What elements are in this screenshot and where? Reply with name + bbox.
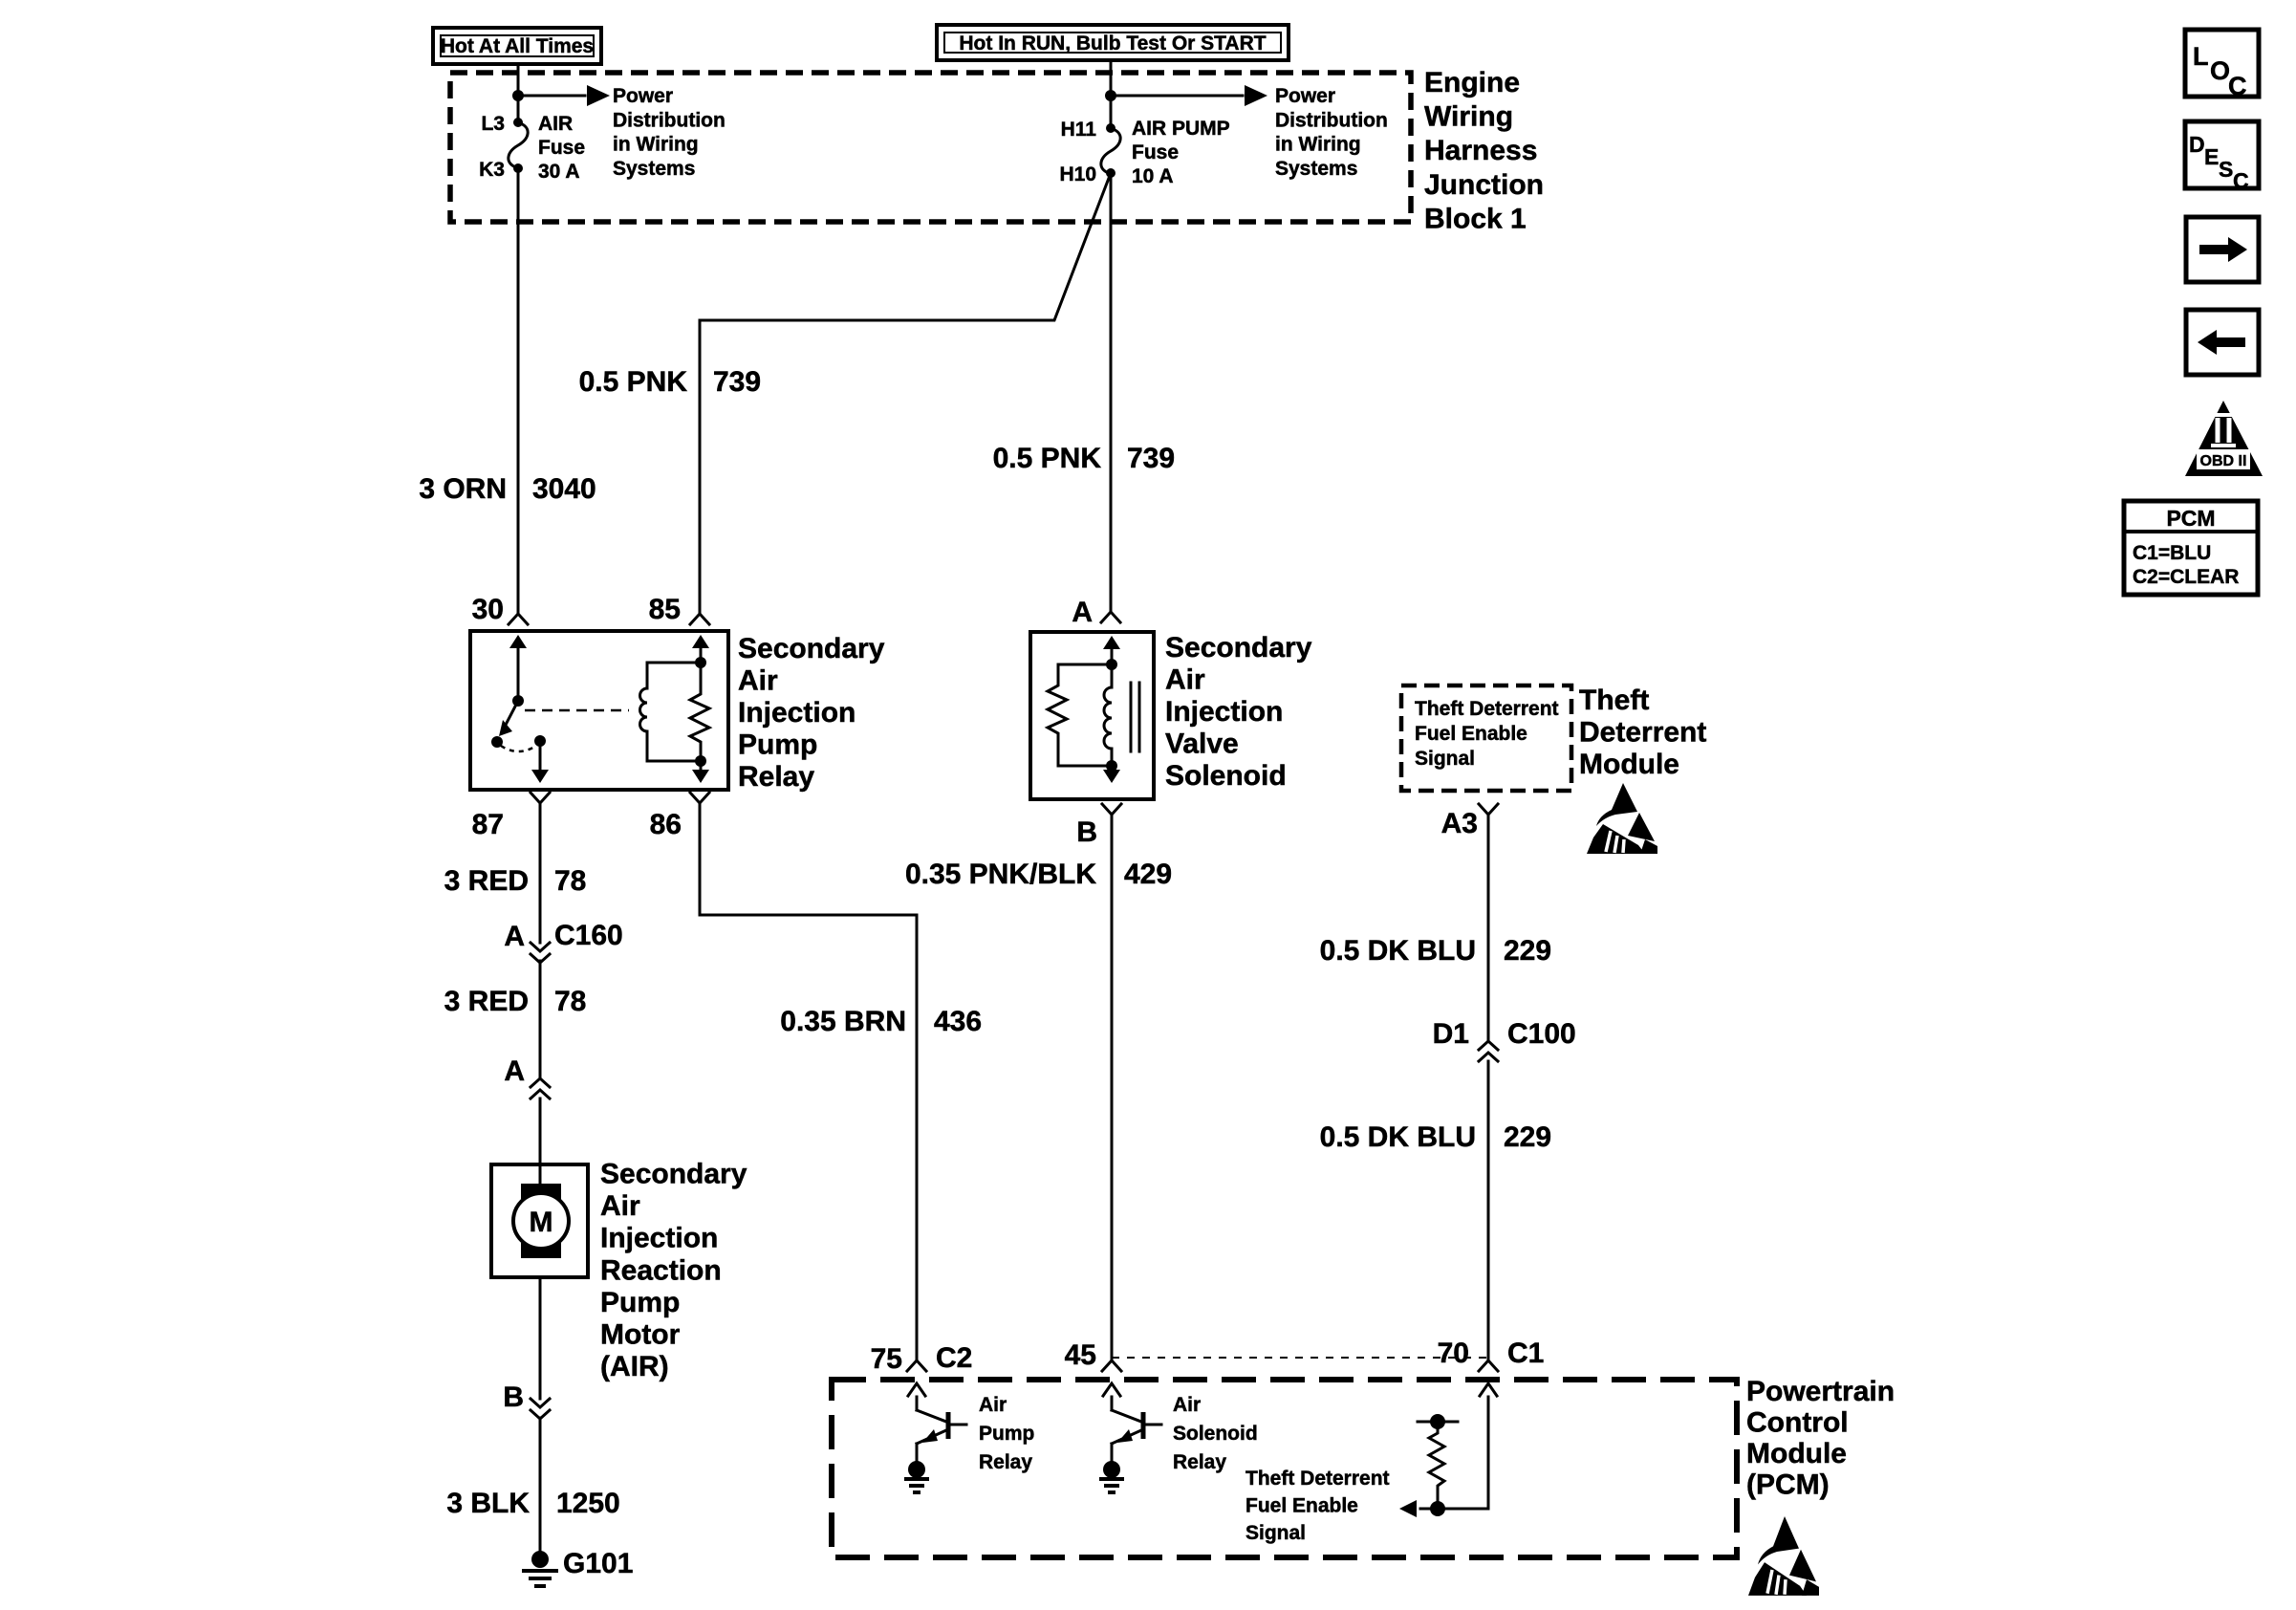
svg-text:739: 739 (713, 366, 761, 398)
wire: 0.5 DK BLU 229 C100 to PCM pin 70 (1487, 1061, 1490, 1360)
svg-text:D1: D1 (1433, 1018, 1469, 1050)
fuse: AIR Fuse 30 A (509, 122, 528, 168)
wire: 3 BLK 1250 to ground (539, 1418, 542, 1554)
svg-text:Hot In RUN, Bulb Test Or START: Hot In RUN, Bulb Test Or START (959, 33, 1266, 54)
connector: theft module pin A3 (1479, 804, 1498, 815)
svg-text:45: 45 (1065, 1339, 1096, 1371)
svg-text:0.35 BRN: 0.35 BRN (780, 1006, 906, 1037)
arrowhead: power distribution left (587, 85, 610, 106)
wire: arrow to Power Distribution (right) (1111, 95, 1243, 98)
svg-text:C100: C100 (1507, 1018, 1576, 1050)
wire: 0.5 DK BLU 229 A3 to C100 (1487, 815, 1490, 1039)
solenoid internal: coil (1104, 664, 1112, 766)
motor symbol (521, 1184, 561, 1199)
svg-text:70: 70 (1438, 1338, 1469, 1369)
solenoid: Secondary Air Injection Valve Solenoid box (1030, 632, 1154, 799)
svg-text:78: 78 (554, 986, 586, 1017)
icon: back arrow box (2186, 310, 2259, 375)
connector: PCM pin 45 (1102, 1360, 1121, 1371)
connector: solenoid pin B (1102, 804, 1121, 815)
relay internal: pin85 arrow (700, 648, 703, 663)
ESD sensitive symbol (PCM) (1748, 1516, 1819, 1596)
svg-text:3 BLK: 3 BLK (446, 1488, 530, 1519)
svg-text:A3: A3 (1441, 808, 1478, 839)
node: switch pivot (512, 695, 524, 707)
engine wiring harness junction block 1 (dashed) (450, 73, 1411, 222)
wire: into pump motor (539, 1099, 542, 1184)
svg-text:0.5 PNK: 0.5 PNK (579, 366, 688, 398)
terminal H10 (1106, 168, 1116, 178)
solenoid internal: pin A arrow (1111, 648, 1114, 664)
svg-text:OBD II: OBD II (2200, 453, 2247, 469)
node: coil top junction (695, 657, 706, 668)
relay internal: pin86 arrow (700, 761, 703, 771)
relay internal: switch arm (NO) (505, 701, 518, 727)
relay internal: contact to pin 87 (539, 741, 542, 769)
transistor: Air Pump Relay driver (916, 1397, 919, 1410)
wire: 3 RED 78 relay 87 to C160 (539, 803, 542, 943)
svg-text:Hot At All Times: Hot At All Times (441, 35, 594, 57)
C1 connector boundary (thin dashed) (1112, 1357, 1488, 1359)
svg-text:C2: C2 (936, 1342, 972, 1374)
transistor: Air Solenoid Relay driver (1111, 1397, 1114, 1410)
wire: 3 ORN 3040 from fuse K3 to relay pin 30 (517, 168, 520, 614)
wire: arrow to Power Distribution (left) (518, 95, 585, 98)
arrowhead: power distribution right (1245, 85, 1267, 106)
svg-text:0.5 DK BLU: 0.5 DK BLU (1320, 935, 1476, 967)
svg-text:0.35 PNK/BLK: 0.35 PNK/BLK (905, 859, 1096, 890)
svg-text:85: 85 (649, 594, 681, 625)
svg-text:739: 739 (1127, 443, 1175, 474)
svg-text:A: A (1072, 597, 1093, 628)
terminal L3 (513, 118, 523, 127)
ESD sensitive symbol (theft deterrent module) (1587, 783, 1657, 854)
svg-text:1250: 1250 (556, 1488, 620, 1519)
svg-text:B: B (1076, 816, 1097, 848)
wire: 0.35 PNK/BLK 429 solenoid B to PCM pin 45 (1111, 815, 1114, 1360)
svg-text:A: A (504, 1055, 525, 1087)
connector: relay pin 30 (509, 614, 528, 624)
svg-text:C160: C160 (554, 920, 623, 951)
node: solenoid bottom junction (1106, 760, 1117, 772)
node: junction to power distribution (left) (512, 90, 524, 101)
svg-text:3 RED: 3 RED (444, 865, 529, 897)
icon: DESC box (2185, 121, 2259, 188)
svg-text:0.5 DK BLU: 0.5 DK BLU (1320, 1121, 1476, 1153)
wire: 0.35 BRN 436 relay 86 to PCM pin 75 (700, 803, 917, 1360)
node: coil bottom junction (695, 755, 706, 767)
svg-text:75: 75 (871, 1343, 902, 1375)
icon: forward arrow box (2186, 217, 2259, 282)
connector: relay pin 87 (531, 793, 550, 803)
connector: PCM pin 70 C1 (1479, 1360, 1498, 1371)
relay internal: pin30 arrow to switch (517, 646, 520, 701)
ground G101 (531, 1551, 549, 1568)
solenoid internal: pin B arrow (1111, 766, 1114, 771)
wire: 0.5 PNK 739 branch from fuse to relay pin 85 (700, 173, 1111, 614)
solenoid internal: resistor (1048, 664, 1112, 766)
motor M: Secondary Air Injection Reaction Pump Motor box (491, 1164, 588, 1277)
relay K: Secondary Air Injection Pump Relay box (470, 631, 728, 790)
relay internal: dashed throw arc to pin87 contact (501, 746, 536, 751)
terminal K3 (513, 163, 523, 173)
PCM: Powertrain Control Module box (dashed) (832, 1380, 1737, 1557)
connector: relay pin 85 (690, 614, 709, 624)
wire: theft deterrent fuel enable signal (1420, 1397, 1488, 1509)
connector: relay pin 86 (690, 793, 709, 803)
svg-text:PCM: PCM (2166, 506, 2215, 531)
svg-text:A: A (504, 921, 525, 952)
resistor: theft deterrent fuel enable pull-up (1418, 1421, 1458, 1424)
theft deterrent module (dashed) (1401, 685, 1571, 791)
svg-text:B: B (503, 1382, 524, 1413)
fuse: AIR PUMP Fuse 10 A (1101, 128, 1120, 174)
svg-text:87: 87 (472, 809, 504, 840)
node: switch contact (arm tip) (491, 736, 503, 748)
connector: solenoid pin A (1101, 612, 1120, 622)
wire: battery feed from Hot At All Times to AIR fuse (517, 64, 520, 122)
connector: PCM pin 75 C2 (907, 1360, 926, 1371)
svg-text:229: 229 (1504, 1121, 1551, 1153)
svg-text:G101: G101 (563, 1548, 633, 1579)
node: solenoid top junction (1106, 659, 1117, 670)
svg-text:3040: 3040 (532, 473, 596, 505)
relay internal: dashed actuation link (525, 709, 629, 712)
solenoid internal: core lines (1131, 683, 1139, 751)
relay internal: coil suppression resistor (690, 663, 709, 761)
wire: ignition feed to AIR PUMP fuse (1110, 60, 1113, 128)
legend: PCM connector colors (2124, 501, 2258, 595)
svg-text:M: M (530, 1207, 553, 1238)
wire: motor B lead (539, 1277, 542, 1399)
node: junction to power distribution (right) (1105, 90, 1116, 101)
wire: 0.5 PNK 739 to solenoid pin A (1110, 173, 1113, 611)
svg-text:429: 429 (1124, 859, 1172, 890)
icon: OBD II triangle (2185, 401, 2263, 476)
svg-text:78: 78 (554, 865, 586, 897)
svg-text:436: 436 (934, 1006, 982, 1037)
wire: 3 RED 78 C160 to splice A (539, 961, 542, 1078)
icon: LOC box (2185, 30, 2259, 97)
terminal H11 (1106, 123, 1116, 133)
node: Hot At All Times power label (433, 28, 601, 64)
svg-text:3 ORN: 3 ORN (419, 473, 507, 505)
node: Hot In RUN, Bulb Test Or START power label (937, 25, 1289, 60)
svg-text:C1: C1 (1507, 1338, 1544, 1369)
svg-text:229: 229 (1504, 935, 1551, 967)
node: pin 87 contact (534, 735, 546, 747)
svg-text:30: 30 (472, 594, 504, 625)
svg-text:0.5 PNK: 0.5 PNK (993, 443, 1102, 474)
svg-text:86: 86 (650, 809, 682, 840)
svg-text:3 RED: 3 RED (444, 986, 529, 1017)
relay internal: coil (646, 663, 649, 688)
